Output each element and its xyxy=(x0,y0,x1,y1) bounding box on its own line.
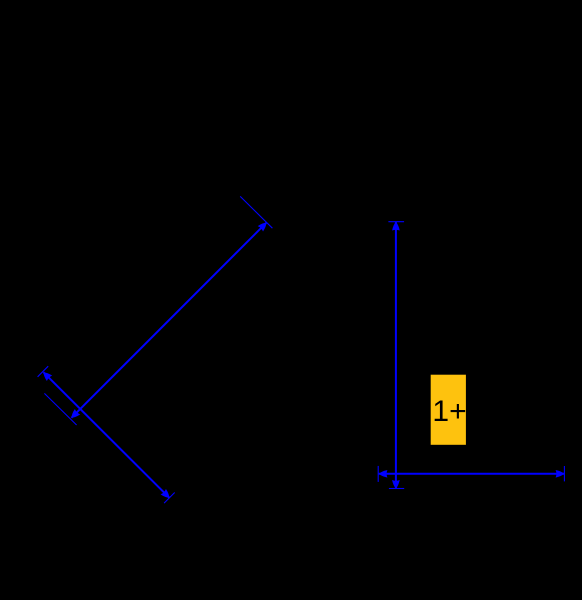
extension line at A top end xyxy=(240,196,272,228)
dimension line A (diagonal, double arrow) xyxy=(69,220,269,421)
tick at horizontal line right xyxy=(563,466,565,481)
dimension line B (diagonal, double arrow) xyxy=(41,370,172,501)
tick at horizontal line left xyxy=(377,466,379,482)
tick at vertical line bottom xyxy=(389,488,404,490)
tick at vertical line top xyxy=(388,221,404,223)
svg-text:1+: 1+ xyxy=(432,395,466,428)
horizontal dimension line (double arrow) xyxy=(379,470,565,478)
orange label box xyxy=(431,375,466,445)
vertical dimension line (double arrow) xyxy=(392,222,400,489)
tick at B bottom end xyxy=(164,493,175,504)
tick at B top end xyxy=(38,366,49,377)
extension line at A bottom end xyxy=(44,393,76,425)
